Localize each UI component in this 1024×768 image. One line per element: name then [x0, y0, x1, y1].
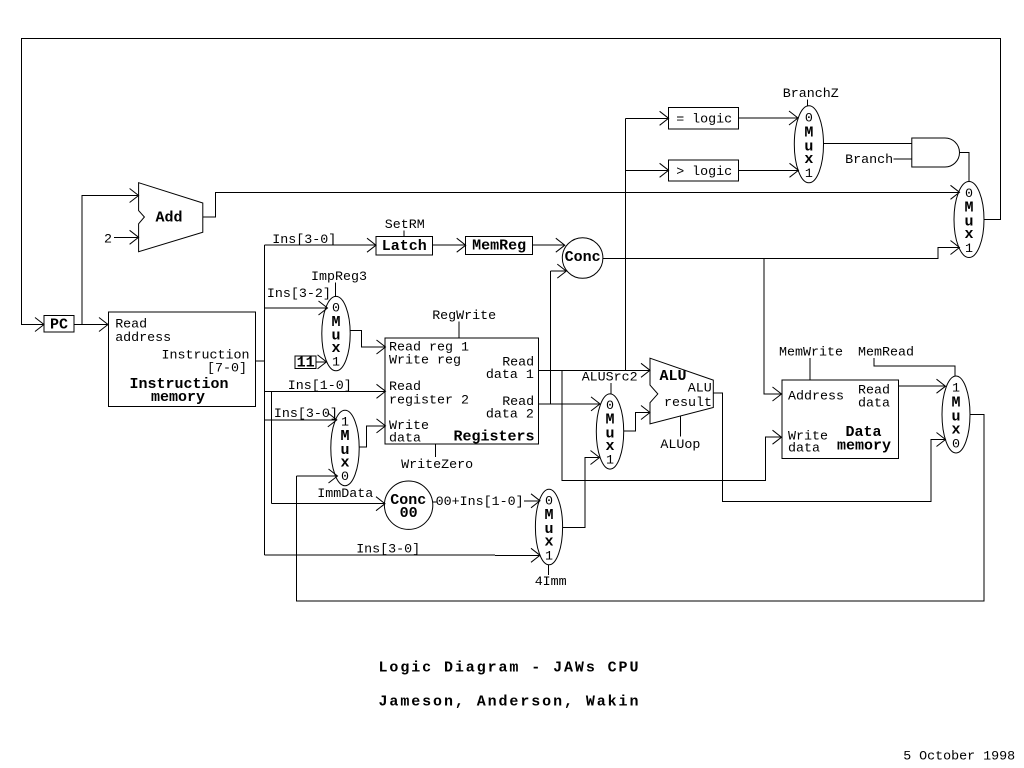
svg-text:1: 1	[805, 167, 813, 182]
svg-text:00+Ins[1-0]: 00+Ins[1-0]	[436, 495, 524, 510]
svg-text:= logic: = logic	[676, 112, 732, 127]
svg-text:x: x	[964, 226, 973, 243]
svg-text:ALU: ALU	[688, 382, 712, 397]
svg-text:Ins[1-0]: Ins[1-0]	[288, 379, 352, 394]
svg-text:Jameson, Anderson, Wakin: Jameson, Anderson, Wakin	[379, 694, 641, 711]
svg-text:0: 0	[341, 470, 349, 485]
svg-text:data: data	[858, 396, 890, 411]
svg-text:Address: Address	[788, 389, 844, 404]
svg-text:address: address	[115, 331, 171, 346]
svg-text:Conc: Conc	[565, 249, 601, 266]
svg-text:ImpReg3: ImpReg3	[311, 270, 367, 285]
svg-text:x: x	[605, 438, 614, 455]
svg-text:x: x	[804, 151, 813, 168]
svg-text:ImmData: ImmData	[317, 487, 373, 502]
svg-text:Registers: Registers	[453, 428, 534, 445]
svg-text:> logic: > logic	[676, 165, 732, 180]
svg-text:1: 1	[332, 355, 340, 370]
svg-text:data 2: data 2	[486, 408, 534, 423]
svg-text:Ins[3-0]: Ins[3-0]	[272, 233, 336, 248]
svg-text:ALU: ALU	[659, 368, 686, 385]
svg-text:memory: memory	[151, 389, 205, 406]
svg-text:Ins[3-2]: Ins[3-2]	[267, 287, 331, 302]
svg-text:data: data	[788, 442, 820, 457]
svg-text:Latch: Latch	[382, 238, 427, 255]
svg-text:RegWrite: RegWrite	[432, 309, 496, 324]
svg-text:register 2: register 2	[389, 393, 469, 408]
svg-text:data 1: data 1	[486, 368, 534, 383]
svg-text:[7-0]: [7-0]	[207, 362, 247, 377]
svg-text:Write reg: Write reg	[389, 353, 461, 368]
svg-text:MemReg: MemReg	[472, 238, 526, 255]
svg-text:2: 2	[104, 233, 112, 248]
svg-text:5 October 1998: 5 October 1998	[903, 750, 1015, 765]
svg-text:ALUop: ALUop	[660, 438, 700, 453]
svg-text:MemRead: MemRead	[858, 345, 914, 360]
svg-text:Add: Add	[155, 210, 182, 227]
svg-text:data: data	[389, 431, 421, 446]
svg-text:x: x	[331, 340, 340, 357]
svg-text:PC: PC	[50, 317, 68, 334]
svg-text:x: x	[951, 421, 960, 438]
svg-text:11: 11	[297, 354, 315, 371]
svg-text:SetRM: SetRM	[385, 218, 425, 233]
svg-text:0: 0	[952, 437, 960, 452]
svg-text:result: result	[664, 396, 712, 411]
svg-text:4Imm: 4Imm	[535, 575, 567, 590]
svg-text:1: 1	[606, 454, 614, 469]
svg-text:memory: memory	[837, 437, 891, 454]
svg-text:1: 1	[545, 549, 553, 564]
svg-text:BranchZ: BranchZ	[783, 87, 839, 102]
svg-text:x: x	[340, 455, 349, 472]
svg-text:Branch: Branch	[845, 153, 893, 168]
svg-text:1: 1	[965, 242, 973, 257]
svg-text:x: x	[544, 534, 553, 551]
svg-text:MemWrite: MemWrite	[779, 345, 843, 360]
svg-text:WriteZero: WriteZero	[401, 458, 473, 473]
svg-text:ALUSrc2: ALUSrc2	[582, 371, 638, 386]
svg-text:Logic Diagram - JAWs CPU: Logic Diagram - JAWs CPU	[379, 660, 641, 677]
svg-text:00: 00	[400, 505, 418, 522]
